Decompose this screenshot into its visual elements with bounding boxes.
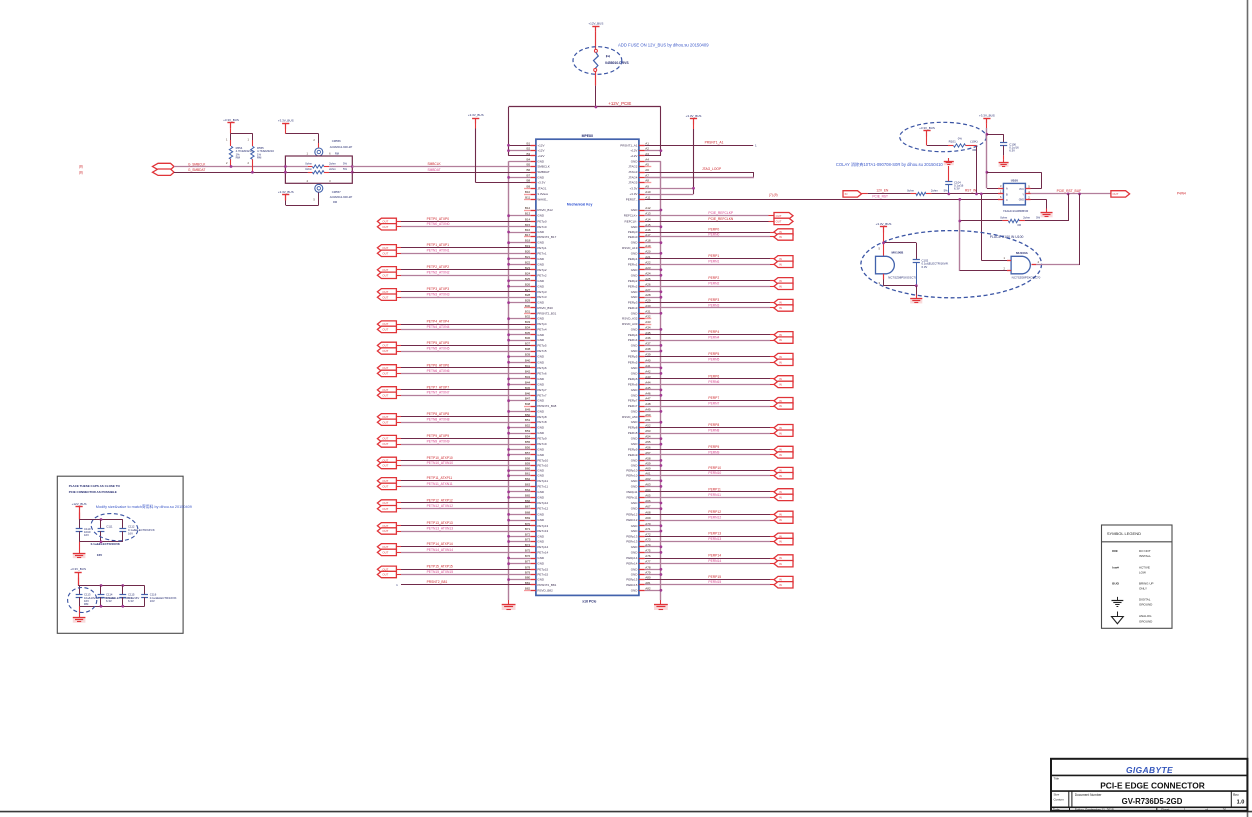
pin A47 PERp7 (628, 397, 651, 403)
pin B3 +12V (527, 152, 545, 158)
svg-text:GND: GND (631, 241, 639, 245)
svg-text:PERN9: PERN9 (708, 450, 719, 454)
svg-text:ONLY: ONLY (1139, 587, 1147, 591)
svg-text:PETP9_ATXP9: PETP9_ATXP9 (427, 434, 450, 438)
svg-text:+12V: +12V (630, 154, 637, 158)
svg-text:Document Number: Document Number (1075, 793, 1103, 797)
svg-text:OUT: OUT (382, 437, 388, 441)
svg-text:+12V: +12V (537, 143, 544, 147)
svg-text:B11: B11 (525, 195, 530, 199)
pin B82 RSVD_B82 (524, 586, 553, 592)
wire PETp15 (PETP15_ATXP15) (396, 569, 530, 571)
svg-text:GND: GND (631, 327, 639, 331)
svg-text:PETn4: PETn4 (537, 327, 547, 331)
svg-text:PETp14: PETp14 (537, 545, 548, 549)
svg-text:B7: B7 (527, 173, 531, 177)
svg-text:B53: B53 (525, 429, 531, 433)
svg-text:GND: GND (537, 382, 545, 386)
pin B12 RSVD_B12 (524, 206, 553, 212)
svg-text:PERn7: PERn7 (628, 404, 638, 408)
pin B45 PETp7 (525, 386, 547, 392)
net label PERN10 (708, 471, 721, 475)
svg-text:A50: A50 (645, 413, 651, 417)
svg-text:GND: GND (631, 290, 639, 294)
svg-text:PERn1: PERn1 (628, 262, 638, 266)
wire PERn10 (645, 475, 774, 477)
svg-text:B30: B30 (525, 304, 531, 308)
pin B23 PETp2 (525, 266, 547, 272)
svg-text:B48: B48 (525, 402, 531, 406)
port tag IN PERp14 (774, 555, 793, 561)
svg-text:RSVD_B82: RSVD_B82 (537, 588, 553, 592)
wire PERn14 (645, 563, 774, 565)
svg-text:JTAG4: JTAG4 (628, 175, 637, 179)
capacitor C111 (98, 520, 113, 542)
pin B20 PETn1 (525, 249, 547, 255)
svg-text:B34: B34 (525, 325, 531, 329)
svg-text:PERN1: PERN1 (708, 260, 719, 264)
svg-text:A36: A36 (645, 336, 651, 340)
wire PERn4 (645, 340, 774, 342)
wire filter pin 5 to +3.3V_BUS (286, 193, 319, 206)
net label PETN7_ATXN7 (427, 391, 450, 395)
pin 4 MU100A output (1032, 260, 1040, 265)
note COLAY (836, 161, 944, 168)
pin A32 RSVD_A32 (622, 315, 651, 321)
wire PERST_ A11 long net (645, 199, 1004, 201)
pin A63 GND (631, 482, 651, 488)
svg-text:B37: B37 (525, 341, 531, 345)
pin B42 PETn6 (525, 369, 547, 375)
svg-text:PETP1_ATXP1: PETP1_ATXP1 (427, 243, 450, 247)
svg-text:GND: GND (537, 556, 545, 560)
svg-text:PERN2: PERN2 (708, 282, 719, 286)
svg-text:PERp9: PERp9 (628, 448, 638, 452)
pin B70 PETp13 (525, 522, 549, 528)
digital ground (cap group 2) (73, 614, 86, 623)
pin A6 JTAG3 (628, 168, 649, 174)
svg-text:OUT: OUT (382, 290, 388, 294)
svg-text:A44: A44 (645, 380, 651, 384)
svg-text:PETN6_ATXN6: PETN6_ATXN6 (427, 369, 450, 373)
port tag OUT PETn2 (377, 272, 396, 278)
svg-text:PETP10_ATXP10: PETP10_ATXP10 (427, 456, 453, 460)
svg-text:GND: GND (537, 301, 545, 305)
wire B49 GND to left bus (507, 410, 530, 413)
pin B59 PETn10 (525, 462, 549, 468)
pin A30 PERn3 (628, 304, 651, 310)
pin B40 GND (525, 358, 545, 364)
junction B2 +12V (507, 149, 510, 152)
svg-text:GND: GND (631, 567, 639, 571)
wire B26 GND to left bus (507, 285, 530, 288)
svg-text:IN: IN (779, 257, 782, 261)
svg-text:PERp14: PERp14 (626, 556, 638, 560)
svg-text:OUT: OUT (382, 545, 388, 549)
net label PERN6 (708, 380, 719, 384)
svg-text:PERP15: PERP15 (708, 575, 721, 579)
pin B16 GND (525, 228, 545, 234)
svg-text:B10: B10 (525, 190, 531, 194)
svg-text:PETn5: PETn5 (537, 349, 547, 353)
net label PRSNT2_B81 (427, 580, 448, 584)
wire A82 GND to right bus (645, 589, 663, 592)
wire cap group 2 bottom bus (79, 606, 145, 613)
pin A16 PERp0 (628, 228, 651, 234)
junction g2 c114 top (100, 584, 103, 587)
AND gate MU100B NC7SZ08P5X (876, 250, 918, 279)
svg-text:PETP7_ATXP7: PETP7_ATXP7 (427, 385, 450, 389)
net label PETP15_ATXP15 (427, 565, 453, 569)
pin 3 U100 (998, 184, 1003, 189)
svg-text:PERP5: PERP5 (708, 352, 719, 356)
svg-text:A9: A9 (645, 184, 649, 188)
svg-text:MU100B: MU100B (892, 250, 905, 254)
filter FB551 circle symbol bottom (315, 184, 323, 192)
wire A63 GND to right bus (645, 485, 663, 488)
pin A44 PERn6 (628, 380, 651, 386)
svg-text:PETp13: PETp13 (537, 524, 548, 528)
pin A60 PERp10 (626, 467, 651, 473)
pin B81 PRSNT2_B81 (525, 581, 557, 587)
svg-text:GND: GND (631, 409, 639, 413)
svg-text:GND: GND (631, 464, 639, 468)
pin B64 GND (525, 488, 545, 494)
wire PERn6 (645, 384, 774, 386)
pin B4 GND (527, 157, 545, 163)
junction MU100B vcc (882, 242, 885, 245)
pin A71 GND (631, 527, 651, 533)
svg-text:SMBDAT: SMBDAT (428, 168, 441, 172)
svg-text:OUT: OUT (382, 529, 388, 533)
pin A45 GND (631, 386, 651, 392)
svg-text:A63: A63 (645, 482, 651, 486)
svg-text:JTAG5: JTAG5 (628, 181, 637, 185)
wire PERp4 (645, 334, 774, 336)
svg-text:OUT: OUT (382, 268, 388, 272)
net label PCIE_REFCLKP (708, 211, 734, 215)
pin A26 PERn2 (628, 282, 651, 288)
junction R554/SMBCLK (230, 165, 233, 168)
wire to MU100B ground (916, 286, 918, 295)
wire PETn11 (PETN11_ATXN11) (396, 486, 530, 488)
svg-text:PERP6: PERP6 (708, 374, 719, 378)
pin A5 JTAG2 (628, 163, 651, 169)
svg-text:2ohm: 2ohm (1023, 215, 1031, 219)
svg-text:PRSNT1_A1: PRSNT1_A1 (705, 141, 724, 145)
wire A15 GND to right bus (645, 225, 663, 228)
pin A52 PERp8 (628, 424, 651, 430)
svg-text:B: B (1006, 192, 1008, 196)
net label PERP5 (708, 352, 719, 356)
svg-text:6.3V: 6.3V (128, 599, 134, 603)
svg-text:G_SMBCLK: G_SMBCLK (188, 163, 206, 167)
svg-text:GND: GND (631, 507, 639, 511)
wire PERST tap down to MU100A input 2 (960, 199, 1008, 271)
port arrow G_SMBCLK (153, 163, 175, 169)
junction A9 +3.3V (692, 187, 695, 190)
pin B75 PETn14 (525, 548, 549, 554)
net label G_SMBDAT (188, 168, 205, 172)
svg-text:(10K): (10K) (970, 140, 977, 144)
svg-text:PETp0: PETp0 (537, 219, 547, 223)
wire PERp9 (645, 449, 774, 451)
port tag OUT PETp6 (377, 365, 396, 371)
net label PCIE_RST (872, 195, 888, 199)
port tag IN PERp10 (774, 467, 793, 473)
svg-text:BUO: BUO (1112, 582, 1119, 586)
svg-text:GND: GND (631, 251, 639, 255)
junction C104/PCIE_RST_IN (947, 193, 950, 196)
svg-text:OUT: OUT (382, 328, 388, 332)
svg-text:PETn7: PETn7 (537, 393, 547, 397)
wire PETn9 (PETN9_ATXN9) (396, 444, 530, 446)
pin B33 PETp4 (525, 320, 547, 326)
svg-text:PERP7: PERP7 (708, 396, 719, 400)
wire PETn4 (PETN4_ATXN4) (396, 329, 530, 331)
power +12V_BUS (top) (588, 21, 603, 31)
svg-text:+3.3V_BUS: +3.3V_BUS (468, 113, 484, 117)
svg-text:CM557: CM557 (332, 190, 341, 194)
port tag OUT PETn11 (377, 483, 396, 489)
port tag OUT PETp2 (377, 267, 396, 273)
dashed ellipse around C111/C112 (89, 511, 139, 544)
svg-text:GND: GND (537, 399, 545, 403)
wire cap group 2 top bus (78, 578, 145, 586)
junction c111 bottom (100, 540, 103, 543)
svg-text:B40: B40 (525, 358, 531, 362)
svg-text:C: C (1006, 198, 1008, 202)
wire B21 GND to left bus (507, 257, 530, 260)
wire PETn6 (PETN6_ATXN6) (396, 373, 530, 375)
svg-text:PERP8: PERP8 (708, 423, 719, 427)
pin A12 GND (631, 206, 651, 212)
svg-text:PERn14: PERn14 (626, 562, 638, 566)
net label PETN11_ATXN11 (427, 482, 453, 486)
wire PERp15 (645, 579, 774, 581)
wire A67 GND to right bus (645, 507, 663, 510)
pin B72 GND (525, 532, 545, 538)
pin 2 MU100A (1004, 267, 1012, 271)
wire B53 GND to left bus (507, 432, 530, 435)
svg-text:0.1u&ELECTR/16V/K: 0.1u&ELECTR/16V/K (91, 542, 121, 546)
port tag IN PERn9 (774, 452, 793, 458)
svg-text:PERn8: PERn8 (628, 431, 638, 435)
svg-text:PETP8_ATXP8: PETP8_ATXP8 (427, 412, 450, 416)
svg-text:PETp4: PETp4 (537, 322, 547, 326)
net label +12V_PCIE (608, 101, 631, 106)
svg-text:B58: B58 (525, 456, 531, 460)
port tag OUT PETn3 (377, 294, 396, 300)
net label PETP11_ATXP11 (427, 476, 453, 480)
svg-text:+3.3V_BUS: +3.3V_BUS (876, 222, 892, 226)
port tag IN PERn4 (774, 337, 793, 343)
svg-text:OUT: OUT (382, 464, 388, 468)
svg-text:GND: GND (631, 268, 639, 272)
pin B65 GND (525, 493, 545, 499)
svg-text:PETn11: PETn11 (537, 484, 548, 488)
resistor R101 pullup (10K) 0R (927, 137, 978, 152)
pin B11 WAKE_ (524, 195, 548, 201)
title PCI-E EDGE CONNECTOR (1054, 776, 1205, 790)
wire PETp10 (PETP10_ATXP10) (396, 460, 530, 462)
pin B29 GND (525, 299, 545, 305)
pin B50 PETp8 (525, 413, 547, 419)
svg-text:A10: A10 (645, 190, 651, 194)
wire PCIE_REFCLKP A13 (645, 215, 774, 217)
wire PCIE_RST_IN tag to resistor (862, 193, 911, 195)
svg-text:PERp10: PERp10 (626, 469, 638, 473)
svg-text:B55: B55 (525, 440, 531, 444)
wire PETn15 (PETN15_ATXN15) (396, 574, 530, 576)
svg-text:SMBCLK: SMBCLK (537, 165, 549, 169)
wire +3.3V_BUS down to B8 (476, 124, 531, 183)
digital ground (left bus) (502, 600, 516, 610)
AND gate MU100A NC7SZ08P5X (1011, 251, 1041, 280)
pin B71 PETn13 (525, 527, 549, 533)
wire B7 GND to left bus (507, 176, 530, 179)
svg-text:0ohm: 0ohm (305, 162, 312, 166)
svg-text:PLACE R100 IN U100: PLACE R100 IN U100 (990, 235, 1024, 239)
svg-text:ANALOG: ANALOG (1139, 614, 1152, 618)
wire PERn5 (645, 362, 774, 364)
pin A59 GND (631, 462, 651, 468)
net label PETP12_ATXP12 (427, 498, 453, 502)
svg-text:PERN15: PERN15 (708, 580, 721, 584)
port tag IN PERp15 (774, 576, 793, 582)
capacitor C115 (119, 586, 139, 607)
svg-text:F4: F4 (606, 55, 610, 59)
net label PETN12_ATXN12 (427, 504, 454, 508)
junction +12V_PCIE / fuse (595, 106, 598, 109)
wire PERn9 (645, 454, 774, 456)
pin A22 PERn1 (628, 260, 651, 266)
pin A50 RSVD_A50 (622, 413, 651, 419)
svg-text:A7: A7 (645, 173, 649, 177)
net label JTAG_LOOP (702, 167, 722, 171)
svg-text:GND: GND (537, 495, 545, 499)
pin A23 GND (631, 266, 651, 272)
wire A31 GND to right bus (645, 312, 663, 315)
net label PERP6 (708, 374, 719, 378)
svg-text:PERP4: PERP4 (708, 330, 719, 334)
pin A62 GND (631, 477, 651, 483)
pin A54 GND (631, 435, 651, 441)
svg-text:OUT: OUT (382, 479, 388, 483)
wire PERp8 (645, 427, 774, 429)
svg-text:PRSNT2_B81: PRSNT2_B81 (537, 583, 556, 587)
svg-text:PERN7: PERN7 (708, 401, 719, 405)
svg-text:PETN5_ATXN5: PETN5_ATXN5 (427, 346, 450, 350)
power +3.3V_BUS (pin B8) (468, 113, 484, 123)
svg-text:OUT: OUT (382, 246, 388, 250)
svg-text:(8): (8) (79, 165, 83, 169)
document number GV-R736D5-2GD (1054, 793, 1245, 807)
pin B69 GND (525, 516, 545, 522)
wire A79 GND to right bus (645, 573, 663, 576)
port tag OUT PETp11 (377, 478, 396, 484)
svg-text:PETN9_ATXN9: PETN9_ATXN9 (427, 439, 450, 443)
net label PERN11 (708, 493, 721, 497)
svg-text:GIGABYTE: GIGABYTE (1126, 765, 1173, 775)
svg-text:+12V: +12V (537, 154, 544, 158)
svg-text:0ohm: 0ohm (305, 167, 312, 171)
svg-text:PERN11: PERN11 (708, 493, 721, 497)
svg-text:B72: B72 (525, 532, 531, 536)
digital ground (C100) (999, 160, 1009, 167)
wire B57 GND to left bus (507, 454, 530, 457)
connector MPE8X x16 PCIe edge connector body (536, 134, 639, 595)
svg-text:PERp6: PERp6 (628, 377, 638, 381)
wire A75 GND to right bus (645, 551, 663, 554)
pin B17 PRSNT2_B17 (524, 233, 557, 239)
svg-text:PETN4_ATXN4: PETN4_ATXN4 (427, 325, 450, 329)
pin A37 GND (631, 341, 651, 347)
svg-text:Modify size&value to match寄用料: Modify size&value to match寄用料 by dihou.s… (96, 504, 192, 509)
svg-text:GND: GND (631, 573, 639, 577)
port tag OUT PETn0 (377, 224, 396, 230)
svg-text:A68: A68 (645, 510, 651, 514)
sheet ref P4/N4 (1177, 191, 1186, 195)
sheet bottom border (0, 811, 1252, 813)
junction g2 c114 bottom (100, 605, 103, 608)
svg-text:RSVD_A50: RSVD_A50 (622, 415, 638, 419)
svg-text:GND: GND (537, 448, 545, 452)
port tag IN PERn6 (774, 381, 793, 387)
svg-text:A4: A4 (645, 157, 649, 161)
svg-text:GND: GND (537, 512, 545, 516)
port tag IN PERn3 (774, 305, 793, 311)
pin B73 GND (525, 538, 545, 544)
wire +12V_BUS to fuse (595, 32, 597, 50)
svg-text:PETn13: PETn13 (537, 529, 548, 533)
pin B28 PETn3 (525, 293, 547, 299)
net label PETN4_ATXN4 (427, 325, 450, 329)
port tag IN PERn10 (774, 473, 793, 479)
port tag OUT PCIE_REFCLKN (774, 218, 793, 224)
svg-text:PERp3: PERp3 (628, 301, 638, 305)
label Mechanical Key (567, 202, 593, 206)
wire PETp4 (PETP4_ATXP4) (396, 324, 530, 326)
svg-text:GND: GND (537, 279, 545, 283)
net label PETN2_ATXN2 (427, 271, 450, 275)
svg-text:RM: RM (257, 156, 262, 160)
svg-text:6.3V: 6.3V (922, 265, 928, 269)
wire B73 GND to left bus (507, 540, 530, 543)
stray value text 0.1u (91, 542, 121, 557)
svg-text:A34: A34 (645, 325, 651, 329)
wire B18 GND to left bus (507, 241, 530, 244)
svg-text:A11: A11 (645, 195, 650, 199)
svg-text:GND: GND (537, 241, 545, 245)
svg-text:GND: GND (631, 550, 639, 554)
svg-text:B17: B17 (525, 233, 531, 237)
svg-text:GND: GND (537, 333, 545, 337)
wire B16 GND to left bus (507, 231, 530, 234)
pin B1 +12V (527, 141, 545, 147)
wire PETp5 (PETP5_ATXP5) (396, 345, 530, 347)
wire B69 GND to left bus (507, 519, 530, 522)
svg-text:GND: GND (631, 311, 639, 315)
svg-text:CM556: CM556 (332, 139, 341, 143)
pin B34 PETn4 (525, 325, 547, 331)
svg-text:A72: A72 (645, 532, 651, 536)
svg-text:IN: IN (779, 426, 782, 430)
wire B39 GND to left bus (507, 355, 530, 358)
junction +3.3V/C100 branch (986, 133, 989, 136)
svg-text:NC7SZ08P5XOSC70: NC7SZ08P5XOSC70 (888, 276, 917, 280)
wire A23 GND to right bus (645, 268, 663, 271)
